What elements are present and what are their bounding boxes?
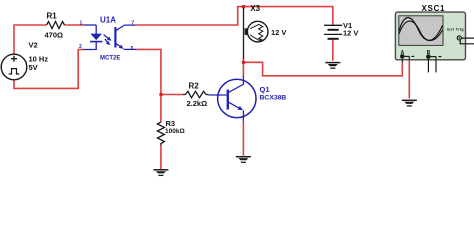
svg-text:XSC1: XSC1 xyxy=(422,4,446,13)
svg-text:5V: 5V xyxy=(29,63,38,72)
AC source V2 xyxy=(1,54,27,80)
svg-text:470Ω: 470Ω xyxy=(45,30,64,39)
svg-text:X3: X3 xyxy=(250,4,260,13)
lamp X3 xyxy=(244,8,269,59)
emitter lead xyxy=(124,48,137,50)
collector line xyxy=(115,25,135,31)
photo transistor base bar xyxy=(114,27,116,48)
svg-text:2: 2 xyxy=(79,44,82,50)
LED anode lead xyxy=(95,25,97,34)
wire V2 top to R1 xyxy=(14,25,47,55)
transistor Q1 xyxy=(209,75,257,122)
svg-text:U1A: U1A xyxy=(100,16,116,25)
wire scope A- to ground xyxy=(408,60,410,99)
light arrow 1 xyxy=(104,35,110,40)
base bar xyxy=(227,90,229,110)
emitter line with arrow xyxy=(115,43,122,47)
pin1 lead xyxy=(83,24,96,26)
scope trace 2 xyxy=(399,21,443,40)
svg-text:1: 1 xyxy=(80,20,83,26)
wire U1A pin2 cathode loop to V2 bottom xyxy=(14,50,83,89)
svg-text:R3: R3 xyxy=(166,119,176,128)
svg-text:BCX38B: BCX38B xyxy=(260,94,287,101)
junction node lamp bottom / collector xyxy=(242,61,245,64)
svg-text:MCT2E: MCT2E xyxy=(100,55,120,61)
oscilloscope XSC1 xyxy=(395,12,474,72)
resistor R2 xyxy=(183,91,209,98)
ground under Q1 xyxy=(236,157,251,163)
svg-text:Q1: Q1 xyxy=(260,85,270,94)
battery V1 xyxy=(324,25,342,39)
wire lamp bottom to Q1 collector xyxy=(242,58,244,75)
ext trig terminal xyxy=(457,36,461,40)
LED cathode lead xyxy=(83,42,96,50)
wire lamp junction to scope channel A xyxy=(243,59,402,76)
svg-text:5: 5 xyxy=(131,46,134,52)
terminal B+ xyxy=(426,54,431,59)
resistor R3 xyxy=(157,122,164,146)
optocoupler U1A xyxy=(83,25,137,50)
terminal A+ xyxy=(400,54,405,59)
svg-text:7: 7 xyxy=(131,20,134,26)
emitter xyxy=(228,102,240,109)
wire R1 to U1A pin1 xyxy=(65,24,84,26)
ground under V1 xyxy=(325,63,340,69)
wire U1A pin7 to lamp top net xyxy=(136,7,333,26)
wire R3 to ground xyxy=(160,146,162,170)
junction node lamp top xyxy=(242,5,245,8)
scope trace 1 xyxy=(399,18,443,41)
svg-text:2.2kΩ: 2.2kΩ xyxy=(187,99,208,108)
resistor R1 xyxy=(47,22,65,29)
wire node to R2 xyxy=(161,94,183,96)
wire V1 to ground xyxy=(332,39,334,61)
junction node R2/R3 xyxy=(159,93,162,96)
LED cathode bar xyxy=(90,41,102,43)
ground under R3 xyxy=(153,170,168,176)
svg-text:Ext Trig: Ext Trig xyxy=(447,26,464,31)
svg-text:V2: V2 xyxy=(29,41,38,50)
B stubs xyxy=(427,59,429,73)
wire Q1 emitter to ground xyxy=(242,122,244,156)
svg-text:12 V: 12 V xyxy=(271,28,286,37)
base lead xyxy=(209,94,228,96)
svg-text:R2: R2 xyxy=(189,82,200,91)
LED triangle xyxy=(90,34,102,41)
svg-text:R1: R1 xyxy=(47,12,58,21)
svg-text:12 V: 12 V xyxy=(343,28,358,37)
light arrow 2 xyxy=(105,39,109,44)
wire U1A pin5 down to node R2/R3 xyxy=(137,49,161,122)
collector xyxy=(228,75,244,93)
svg-text:100kΩ: 100kΩ xyxy=(165,128,185,135)
ground under scope A- xyxy=(402,100,417,106)
